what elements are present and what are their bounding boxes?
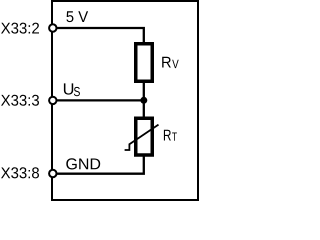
terminal X33:2 [49,24,56,31]
resistor RV [136,44,153,82]
thermistor diagonal stroke [125,125,159,150]
label X33:8 [1,167,39,178]
label GND [66,158,100,169]
label 5 V [66,11,88,22]
label US [64,83,80,96]
label X33:2 [1,23,39,34]
resistor RT (thermistor body) [136,118,153,155]
label RV [162,57,179,68]
terminal X33:8 [49,170,56,177]
wire 5V: from terminal X33:2 to top of RV [52,28,144,45]
terminal X33:3 [49,97,56,104]
label RT [164,130,177,141]
node junction dot at US [140,97,147,104]
wire junction to RT top lead [143,100,145,118]
label X33:3 [1,95,39,106]
wire RV bottom lead to junction [143,81,145,100]
wire US: from terminal X33:3 to junction [52,99,144,101]
wire GND: from terminal X33:8 to bottom of RT [52,155,144,174]
component box [52,1,198,200]
